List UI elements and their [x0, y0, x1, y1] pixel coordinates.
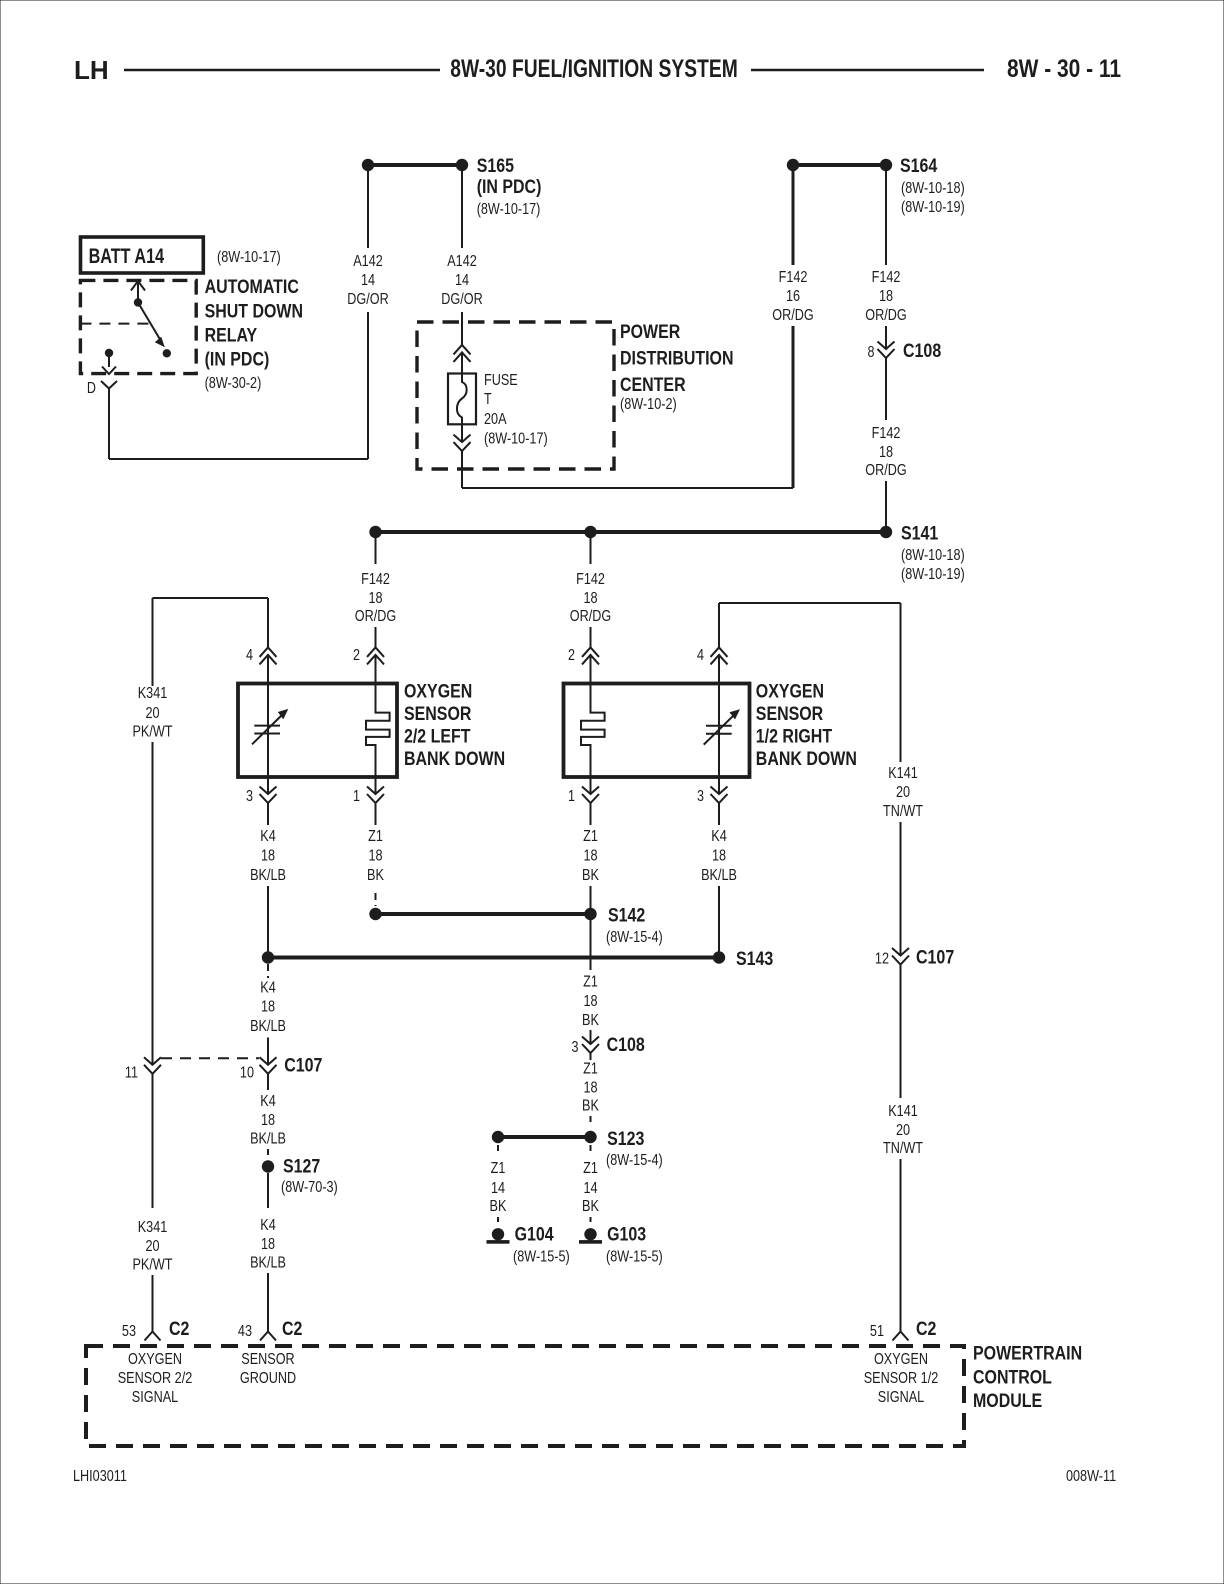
header title 8W-30 FUEL/IGNITION SYSTEM [450, 55, 738, 83]
svg-text:RELAY: RELAY [205, 326, 258, 347]
svg-text:T: T [484, 391, 492, 408]
svg-text:OXYGEN: OXYGEN [756, 682, 824, 703]
svg-text:1: 1 [353, 788, 360, 805]
svg-text:OR/DG: OR/DG [570, 608, 611, 625]
svg-text:3: 3 [697, 788, 704, 805]
svg-text:OXYGEN: OXYGEN [874, 1351, 928, 1368]
svg-text:20: 20 [896, 1122, 910, 1139]
svg-text:K4: K4 [260, 828, 276, 845]
svg-text:K341: K341 [138, 685, 168, 702]
svg-text:C107: C107 [916, 948, 954, 969]
label wire Z1 18 BK below S142 [582, 974, 599, 1030]
label oxygen sensor 2/2 left bank down [404, 682, 505, 771]
svg-text:TN/WT: TN/WT [883, 803, 923, 820]
label C2 left [169, 1319, 189, 1340]
relay output contact dot [105, 349, 113, 357]
svg-text:12: 12 [875, 951, 889, 968]
svg-text:2: 2 [568, 647, 575, 664]
powertrain control module box (dashed) [86, 1346, 964, 1446]
svg-text:BK/LB: BK/LB [250, 1131, 286, 1148]
label sensor ground [240, 1351, 296, 1387]
label pin 4 left sensor [246, 647, 253, 664]
svg-text:1: 1 [568, 788, 575, 805]
svg-text:(8W-10-19): (8W-10-19) [901, 199, 965, 216]
svg-text:BK/LB: BK/LB [250, 1018, 286, 1035]
svg-text:PK/WT: PK/WT [133, 723, 173, 740]
right sensor heater meander [581, 685, 605, 776]
wire right pin1 to label [590, 804, 592, 826]
svg-text:(8W-10-2): (8W-10-2) [620, 396, 677, 413]
svg-text:(8W-15-5): (8W-15-5) [513, 1249, 570, 1266]
oxygen sensor 2/2 left box [238, 684, 397, 778]
label powertrain control module [973, 1344, 1082, 1413]
svg-text:53: 53 [122, 1323, 136, 1340]
label wire K141 20 TN/WT lower [883, 1103, 923, 1157]
label oxygen sensor 1/2 right bank down [756, 682, 857, 771]
label C108 upper [903, 341, 941, 362]
label pin 3 left sensor [246, 788, 253, 805]
ground G103 [579, 1228, 602, 1244]
relay box automatic shut down relay (dashed) [80, 280, 196, 373]
wire right sensor pin3 wire above box [718, 776, 720, 794]
relay pin D connector [101, 381, 117, 398]
label pin 8 [868, 344, 875, 361]
label pin 11 [125, 1065, 138, 1082]
svg-text:(8W-10-17): (8W-10-17) [477, 201, 541, 218]
svg-text:DG/OR: DG/OR [347, 291, 388, 308]
wire relay D down and across to A142 riser [109, 398, 368, 459]
svg-text:8: 8 [868, 344, 875, 361]
svg-text:F142: F142 [872, 425, 901, 442]
svg-text:G103: G103 [607, 1225, 646, 1246]
in-line connector C108 pin 8 chevron [878, 342, 895, 359]
svg-text:SENSOR 2/2: SENSOR 2/2 [118, 1370, 193, 1387]
wire F142 18 to S141 [885, 481, 887, 528]
label pin 2 left sensor [353, 647, 360, 664]
svg-text:FUSE: FUSE [484, 372, 518, 389]
wire F142 18 right sensor drop [590, 538, 592, 564]
connector chevron right sensor pin 1 (down) [582, 787, 599, 804]
label C108 lower [607, 1035, 645, 1056]
wire Z1 dash above S123 [590, 1116, 592, 1124]
svg-text:F142: F142 [779, 269, 808, 286]
svg-text:K4: K4 [260, 980, 276, 997]
svg-text:OR/DG: OR/DG [772, 307, 813, 324]
connector chevron right sensor pin 4 (up) [711, 647, 728, 664]
label oxygen sensor 2/2 signal [118, 1351, 193, 1406]
wire F142 18 drop upper [885, 170, 887, 265]
svg-text:18: 18 [879, 444, 893, 461]
svg-text:F142: F142 [872, 269, 901, 286]
svg-text:BK/LB: BK/LB [250, 1255, 286, 1272]
svg-text:TN/WT: TN/WT [883, 1140, 923, 1157]
wire fuse output across to F142 riser [462, 487, 793, 489]
wire Z1 below C108 [590, 1053, 592, 1060]
svg-text:BK: BK [367, 867, 384, 884]
relay output arrow down [102, 356, 116, 374]
wire Z1 dash above S142 [375, 893, 377, 906]
svg-text:BK: BK [490, 1198, 507, 1215]
wire K4 below S127 [267, 1173, 269, 1208]
label S142 [606, 906, 663, 947]
header rule right [751, 69, 984, 72]
svg-text:18: 18 [879, 288, 893, 305]
wire A142 left riser lower [367, 312, 369, 459]
wire left sensor pin3 wire above box [267, 776, 269, 794]
wire chevron into left sensor box pin4 [267, 655, 269, 684]
label pin 1 right sensor [568, 788, 575, 805]
wire K141 top run [719, 602, 901, 604]
label S141 [901, 524, 965, 584]
power distribution center box (dashed) [417, 322, 614, 469]
svg-text:(8W-15-4): (8W-15-4) [606, 1152, 663, 1169]
label pin 51 [870, 1323, 884, 1340]
svg-text:14: 14 [455, 272, 469, 289]
svg-text:K141: K141 [888, 1103, 918, 1120]
right sensor variable resistor bars [706, 726, 732, 734]
svg-text:SENSOR: SENSOR [241, 1351, 294, 1368]
label pin 3 right sensor [697, 788, 704, 805]
battery feed box BATT A14 [81, 237, 204, 273]
svg-text:C108: C108 [903, 341, 941, 362]
svg-text:(8W-10-17): (8W-10-17) [484, 431, 548, 448]
svg-text:SIGNAL: SIGNAL [878, 1389, 924, 1406]
wire K141 riser below C107 [900, 965, 902, 1099]
wire chevron into left sensor box [375, 655, 377, 684]
svg-text:LHI03011: LHI03011 [73, 1468, 127, 1485]
svg-text:GROUND: GROUND [240, 1370, 296, 1387]
label oxygen sensor 1/2 signal [864, 1351, 939, 1406]
svg-text:18: 18 [583, 1080, 597, 1097]
wire K4 dash below S143 dot [267, 964, 269, 978]
svg-text:K4: K4 [711, 828, 727, 845]
svg-text:18: 18 [712, 848, 726, 865]
label wire K4 18 BK/LB below S143 [250, 980, 286, 1036]
svg-text:8W-30 FUEL/IGNITION SYSTEM: 8W-30 FUEL/IGNITION SYSTEM [450, 55, 738, 83]
svg-text:BANK DOWN: BANK DOWN [404, 749, 505, 770]
svg-text:20A: 20A [484, 411, 507, 428]
svg-text:SENSOR: SENSOR [756, 704, 824, 725]
label pin 3 C108 [572, 1039, 579, 1056]
svg-text:SENSOR: SENSOR [404, 704, 472, 725]
wire F142 16 riser upper [792, 170, 795, 265]
wire Z1 below S123 right dash [590, 1145, 592, 1156]
svg-text:16: 16 [786, 288, 800, 305]
svg-text:14: 14 [491, 1180, 505, 1197]
svg-text:S141: S141 [901, 524, 939, 545]
label wire K141 20 TN/WT upper [883, 765, 923, 820]
label wire Z1 14 BK left [490, 1160, 507, 1215]
label pin 4 right sensor [697, 647, 704, 664]
label wire K4 18 BK/LB first [250, 828, 286, 884]
connector chevron left sensor pin 3 (down) [260, 787, 277, 804]
svg-text:3: 3 [246, 788, 253, 805]
oxygen sensor 1/2 right box [564, 684, 750, 778]
wire Z1 dash above G103 [590, 1217, 592, 1225]
splice S165 node dots and bus [362, 159, 468, 171]
label wire K4 18 BK/LB right [701, 828, 737, 884]
header rule left [124, 69, 440, 72]
label S127 [281, 1157, 338, 1197]
label wire Z1 14 BK right [582, 1160, 599, 1215]
relay NO contact dot [163, 349, 171, 357]
svg-text:(8W-10-17): (8W-10-17) [217, 249, 281, 266]
wire F142 18 to C108 [885, 326, 887, 349]
in-line connector C107 pin 10 chevron [260, 1057, 277, 1074]
svg-text:F142: F142 [576, 571, 605, 588]
svg-text:AUTOMATIC: AUTOMATIC [205, 277, 300, 298]
header page id LH [74, 55, 109, 85]
wire Z1 to C108 [590, 1030, 592, 1044]
left sensor variable resistor bars [254, 726, 280, 734]
relay common contact dot [134, 298, 142, 306]
left sensor variable resistor arrow [252, 709, 288, 744]
label pin 1 left sensor [353, 788, 360, 805]
right sensor element wire [718, 685, 720, 776]
svg-text:Z1: Z1 [368, 828, 383, 845]
svg-text:S143: S143 [736, 949, 773, 970]
svg-text:BK: BK [582, 1198, 599, 1215]
label wire Z1 18 BK right [582, 828, 599, 884]
svg-text:(8W-15-4): (8W-15-4) [606, 929, 663, 946]
splice S141 bus and node dots [369, 526, 892, 538]
wire A142 right drop into PDC [461, 312, 463, 345]
svg-text:Z1: Z1 [583, 1160, 598, 1177]
header page number 8W - 30 - 11 [1007, 55, 1121, 83]
label S123 [606, 1129, 663, 1169]
svg-text:(8W-15-5): (8W-15-5) [606, 1249, 663, 1266]
svg-text:14: 14 [361, 272, 375, 289]
wire left pin3 to label [267, 804, 269, 826]
connector chevron left sensor pin 4 (up) [260, 647, 277, 664]
svg-text:18: 18 [261, 1112, 275, 1129]
svg-text:K4: K4 [260, 1093, 276, 1110]
ground G104 [487, 1228, 510, 1244]
svg-text:A142: A142 [353, 253, 383, 270]
label wire K341 20 PK/WT lower [133, 1219, 173, 1274]
wire K141 riser to C107 [900, 822, 902, 956]
splice S143 bus and node dots [262, 951, 725, 963]
in-line connector C107 pin 12 chevron [892, 948, 909, 965]
svg-text:18: 18 [368, 848, 382, 865]
svg-text:DG/OR: DG/OR [441, 291, 482, 308]
svg-text:18: 18 [261, 999, 275, 1016]
wire left sensor pin 4 up to K341 run [267, 598, 269, 648]
svg-text:D: D [87, 380, 96, 397]
svg-text:C2: C2 [169, 1319, 189, 1340]
label wire F142 18 OR/DG upper [865, 269, 906, 324]
wire chevron into right sensor box pin4 [718, 655, 720, 684]
svg-text:18: 18 [368, 590, 382, 607]
svg-text:51: 51 [870, 1323, 884, 1340]
svg-text:MODULE: MODULE [973, 1391, 1042, 1412]
label C2 mid [282, 1319, 302, 1340]
svg-text:10: 10 [240, 1065, 254, 1082]
wire left sensor pin1 wire above box [375, 776, 377, 794]
wire C108 to label [885, 358, 887, 420]
svg-text:(IN PDC): (IN PDC) [477, 177, 542, 198]
label wire K4 18 BK/LB below S127 [250, 1217, 286, 1272]
svg-text:18: 18 [583, 993, 597, 1010]
wire K4 to C107 [267, 1038, 269, 1065]
svg-text:CONTROL: CONTROL [973, 1368, 1052, 1389]
label wire F142 16 OR/DG [772, 269, 813, 324]
svg-text:CENTER: CENTER [620, 375, 686, 396]
label pin 2 right sensor [568, 647, 575, 664]
svg-text:20: 20 [145, 705, 159, 722]
svg-text:OR/DG: OR/DG [865, 462, 906, 479]
svg-text:18: 18 [261, 848, 275, 865]
wire K341 to PCM [152, 1275, 154, 1332]
svg-text:C107: C107 [284, 1056, 322, 1077]
svg-text:OXYGEN: OXYGEN [404, 682, 472, 703]
label S143 [736, 949, 773, 970]
label wire F142 18 OR/DG right sensor [570, 571, 611, 625]
svg-text:43: 43 [238, 1323, 252, 1340]
relay internal divider dash [80, 323, 148, 325]
svg-text:Z1: Z1 [583, 974, 598, 991]
in-line connector C107 pin 11 chevron [144, 1057, 161, 1074]
label battery reference [217, 249, 281, 266]
svg-text:BANK DOWN: BANK DOWN [756, 749, 857, 770]
wire K341 riser upper [152, 598, 154, 686]
label wire F142 18 OR/DG lower [865, 425, 906, 479]
svg-text:K141: K141 [888, 765, 918, 782]
svg-text:SIGNAL: SIGNAL [132, 1389, 178, 1406]
svg-text:BK/LB: BK/LB [701, 867, 737, 884]
svg-text:BK: BK [582, 867, 599, 884]
wire F142 18 left sensor drop [375, 538, 377, 564]
label G103 [606, 1225, 663, 1266]
svg-text:Z1: Z1 [583, 828, 598, 845]
label wire Z1 18 BK left [367, 828, 384, 884]
connector chevron right sensor pin 3 (down) [711, 787, 728, 804]
left sensor heater meander [366, 685, 390, 776]
svg-text:DISTRIBUTION: DISTRIBUTION [620, 349, 734, 370]
in-line connector C108 pin 3 chevron [582, 1037, 599, 1054]
svg-text:C2: C2 [282, 1319, 302, 1340]
svg-text:(8W-70-3): (8W-70-3) [281, 1179, 338, 1196]
wire Z1 dash above G104 [497, 1217, 499, 1225]
label pin 12 [875, 951, 889, 968]
wire Z1 dash below S123 left [497, 1145, 499, 1156]
wire right sensor pin1 wire above box [590, 776, 592, 794]
label relay pin D [87, 380, 96, 397]
label automatic shut down relay [205, 277, 303, 392]
wire to right sensor pin 2 [590, 627, 592, 648]
svg-text:2: 2 [353, 647, 360, 664]
splice S164 node dots and bus [787, 159, 892, 171]
svg-text:008W-11: 008W-11 [1066, 1468, 1116, 1485]
svg-text:POWERTRAIN: POWERTRAIN [973, 1344, 1082, 1365]
svg-text:POWER: POWER [620, 322, 681, 343]
relay switch arm arrow [138, 303, 165, 348]
svg-text:LH: LH [74, 55, 109, 85]
splice S142 bus and node dots [369, 908, 596, 920]
svg-text:OXYGEN: OXYGEN [128, 1351, 182, 1368]
connector chevron left sensor pin 2 (up) [367, 647, 384, 664]
svg-text:C2: C2 [916, 1319, 936, 1340]
svg-text:1/2 RIGHT: 1/2 RIGHT [756, 727, 833, 748]
fuse T 20A [448, 374, 476, 425]
svg-text:BK: BK [582, 1012, 599, 1029]
svg-text:(8W-30-2): (8W-30-2) [205, 375, 262, 392]
left sensor element wire [267, 685, 269, 776]
wire A142 right drop upper [461, 170, 463, 248]
svg-text:K341: K341 [138, 1219, 168, 1236]
wire chevron to fuse top [461, 352, 463, 374]
svg-text:S142: S142 [608, 906, 645, 927]
splice S123 bus and node dots [492, 1131, 597, 1143]
label wire K341 20 PK/WT upper [133, 685, 173, 740]
connector 51 C2 at PCM [893, 1332, 909, 1341]
wire right pin3 to label [718, 804, 720, 826]
svg-text:(8W-10-19): (8W-10-19) [901, 566, 965, 583]
svg-text:20: 20 [145, 1238, 159, 1255]
connector chevron into PDC (up) [454, 345, 471, 362]
wire F142 16 riser lower [792, 326, 795, 488]
wire Z1 right to S142 [590, 886, 592, 910]
svg-text:SHUT DOWN: SHUT DOWN [205, 302, 303, 323]
label G104 [513, 1225, 570, 1266]
wire fuse bottom [461, 424, 463, 442]
label pin 43 [238, 1323, 252, 1340]
label S164 [900, 156, 965, 216]
svg-text:(IN PDC): (IN PDC) [205, 350, 270, 371]
wire K141 riser upper [900, 603, 902, 762]
svg-text:OR/DG: OR/DG [865, 307, 906, 324]
svg-text:G104: G104 [515, 1225, 554, 1246]
svg-text:S127: S127 [283, 1157, 320, 1178]
wire to left sensor pin 2 [375, 627, 377, 648]
svg-text:S164: S164 [900, 156, 938, 177]
wire Z1 below S142 [590, 920, 592, 970]
wire K4 dash above S127 [267, 1149, 269, 1157]
connector chevron left sensor pin 1 (down) [367, 787, 384, 804]
svg-text:S123: S123 [607, 1129, 644, 1150]
wire chevron into right sensor box [590, 655, 592, 684]
svg-text:(8W-10-18): (8W-10-18) [901, 547, 965, 564]
label C107 right [916, 948, 954, 969]
wire fuse output drop [461, 451, 463, 488]
svg-text:SENSOR 1/2: SENSOR 1/2 [864, 1370, 939, 1387]
svg-text:K4: K4 [260, 1217, 276, 1234]
svg-text:C108: C108 [607, 1035, 645, 1056]
svg-text:A142: A142 [447, 253, 477, 270]
svg-text:Z1: Z1 [583, 1061, 598, 1078]
svg-text:BK: BK [582, 1098, 599, 1115]
svg-text:PK/WT: PK/WT [133, 1257, 173, 1274]
svg-text:4: 4 [246, 647, 253, 664]
connector 43 C2 at PCM [260, 1332, 276, 1341]
wire K341 riser to C107 [152, 742, 154, 1065]
svg-text:14: 14 [583, 1180, 597, 1197]
label C107 left [284, 1056, 322, 1077]
wire K341 below C107 [152, 1074, 154, 1209]
label pin 10 [240, 1065, 254, 1082]
wire A142 left riser upper [367, 170, 369, 248]
svg-text:F142: F142 [361, 571, 390, 588]
svg-text:S165: S165 [477, 156, 515, 177]
label wire K4 18 BK/LB below C107 [250, 1093, 286, 1148]
wire K4 right to S143 dot [718, 886, 720, 952]
right sensor variable resistor arrow [704, 709, 740, 744]
wire K141 riser to PCM [900, 1159, 902, 1332]
svg-text:OR/DG: OR/DG [355, 608, 396, 625]
connector C107 dashed link [161, 1057, 259, 1059]
svg-text:11: 11 [125, 1065, 138, 1082]
splice S127 node dot [262, 1160, 274, 1172]
